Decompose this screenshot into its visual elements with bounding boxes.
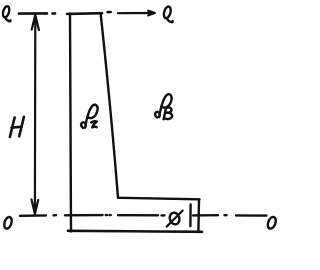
label 0 (left): [3, 216, 13, 230]
vessel outline: top edge: [67, 12, 102, 15]
vessel inner horizontal edge (top of outlet pipe): [118, 198, 200, 200]
vessel right slanted wall: [101, 14, 118, 198]
node a (right label): [163, 6, 173, 22]
label 0 (right): [266, 216, 277, 230]
dimension H arrow line: [34, 16, 37, 213]
dimension tick for D: [189, 205, 192, 227]
label H: [10, 117, 24, 137]
wire: bottom dash-dot axis 0-0: [20, 214, 46, 217]
wire: top axis dot 2: [108, 11, 111, 14]
node a (left label): [2, 6, 11, 22]
arrowhead down: [32, 200, 39, 215]
label diameter D: [168, 211, 181, 225]
label rho_v (water): [155, 94, 172, 119]
label rho_g (gas): [81, 105, 98, 128]
wire: top axis dot 1: [53, 12, 56, 15]
arrowhead up: [32, 15, 39, 30]
wire: top dash-dot axis a-a, left dash: [19, 12, 47, 15]
vessel right end wall: [197, 200, 200, 232]
vessel bottom edge: [68, 231, 202, 232]
wire: top axis right dash with arrow: [118, 12, 153, 14]
vessel left wall: [70, 14, 71, 232]
